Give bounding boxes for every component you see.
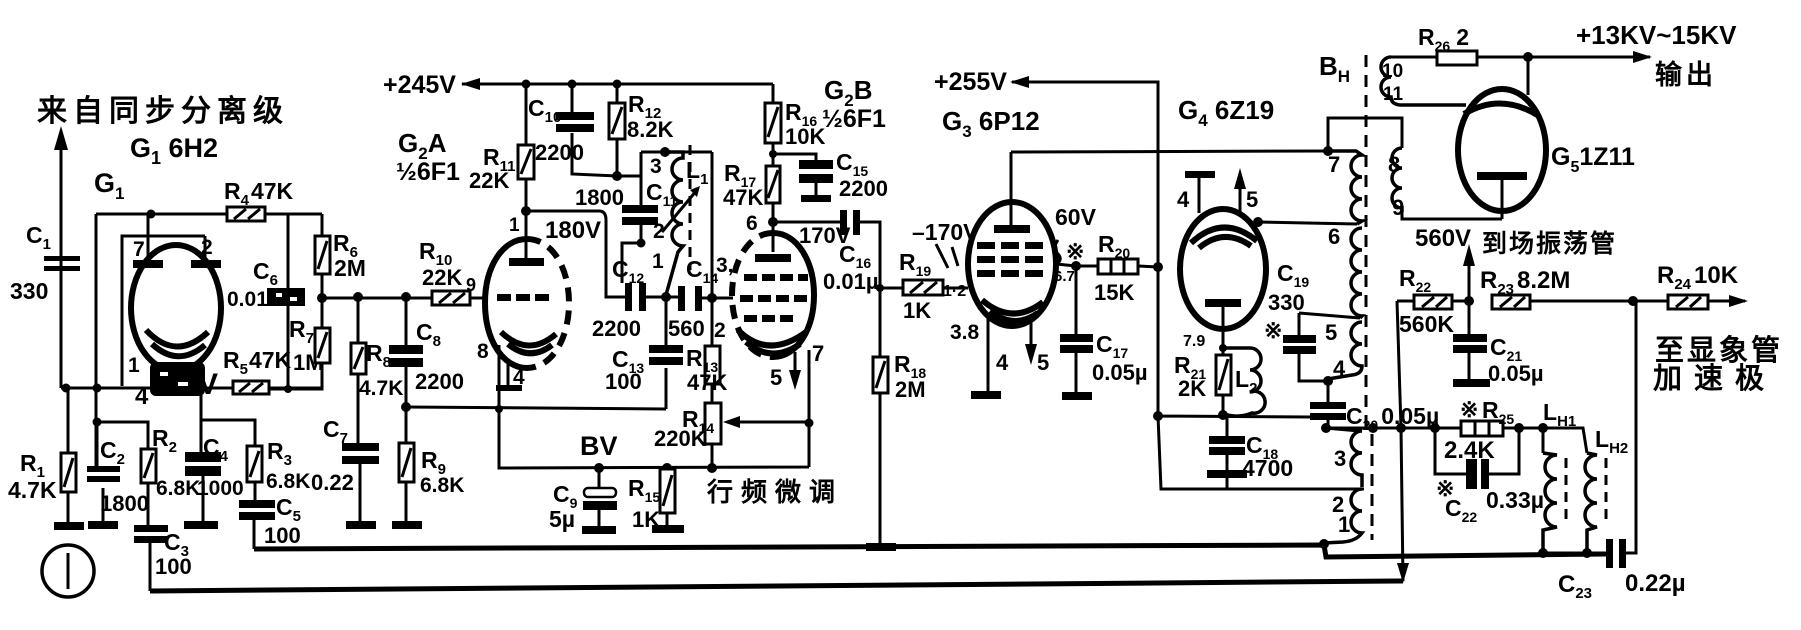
svg-text:2M: 2M <box>895 377 926 402</box>
svg-text:+255V: +255V <box>934 68 1007 96</box>
ground of C2 <box>88 521 118 529</box>
wire: +255V feed <box>1010 76 1158 267</box>
capacitor C7 0.22 <box>342 443 379 522</box>
svg-text:7: 7 <box>1328 152 1340 177</box>
tube G1 (6H2) <box>131 214 221 388</box>
svg-text:R238.2M: R238.2M <box>1480 267 1570 298</box>
svg-text:2K: 2K <box>1178 376 1206 401</box>
svg-text:1: 1 <box>1338 512 1350 537</box>
wire: BV rail <box>495 405 814 473</box>
resistor R1 4.7K <box>61 388 76 524</box>
cathode pin8 lead <box>498 345 501 409</box>
svg-text:4: 4 <box>1177 187 1190 212</box>
svg-text:180V: 180V <box>545 217 601 244</box>
resistor R19 1K <box>903 280 968 295</box>
flyback winding 6-5 <box>1351 228 1362 318</box>
capacitor C23 0.22u <box>1538 301 1636 568</box>
svg-text:0.22µ: 0.22µ <box>1625 570 1686 597</box>
grid dashes <box>497 294 511 301</box>
cathode arc <box>501 332 556 346</box>
tube G2B (half 6F1) <box>732 222 814 423</box>
svg-text:2200: 2200 <box>592 316 641 341</box>
capacitor C17 0.05u <box>1060 266 1093 400</box>
potentiometer R14 220K <box>705 403 809 468</box>
svg-text:4.7K: 4.7K <box>359 377 403 400</box>
flyback winding 3 <box>1328 428 1362 487</box>
anode bar <box>1205 299 1241 307</box>
svg-text:※: ※ <box>1460 397 1478 422</box>
resistor R20 15K <box>1098 259 1163 274</box>
capacitor C14 560 <box>678 286 733 311</box>
svg-text:9: 9 <box>1392 195 1404 220</box>
resistor R16 10K <box>765 84 781 166</box>
svg-text:10K: 10K <box>785 124 825 149</box>
resistor R23 8.2M <box>1492 295 1668 309</box>
wire: right side of feedback box <box>268 214 322 389</box>
grid rows <box>977 242 995 249</box>
svg-text:6: 6 <box>1328 224 1340 249</box>
node: sync input wire with arrow <box>54 126 68 388</box>
ground of C7 <box>346 521 376 529</box>
svg-text:3: 3 <box>650 155 662 178</box>
cathode pin4 lead <box>987 315 990 391</box>
capacitor C15 2200 <box>773 154 833 202</box>
flyback HV winding 8-9 <box>1328 118 1502 219</box>
capacitor C4 1000 <box>185 452 221 522</box>
pin 5 arrow up <box>1239 184 1242 213</box>
pin 4 top bar <box>1198 178 1201 213</box>
svg-text:560V: 560V <box>1415 225 1471 252</box>
svg-text:R2410K: R2410K <box>1657 262 1739 293</box>
svg-text:行频微调: 行频微调 <box>706 477 843 507</box>
tube G2A (half 6F1) <box>485 211 569 409</box>
svg-text:4: 4 <box>135 383 149 410</box>
cathode arc <box>738 330 806 346</box>
svg-text:0.22: 0.22 <box>311 470 354 495</box>
svg-text:560: 560 <box>668 316 705 341</box>
svg-text:100: 100 <box>155 554 192 579</box>
grid dashes row1 <box>744 274 757 281</box>
ground of R15 <box>652 525 684 533</box>
resistor R9 6.8K <box>399 407 414 522</box>
svg-text:5: 5 <box>1037 350 1049 375</box>
anode lead <box>772 222 775 252</box>
heater pin5 arrow <box>794 352 797 375</box>
ground of R1 <box>54 522 84 530</box>
resistor R24 10K <box>1668 295 1748 309</box>
ground of C4 <box>184 521 218 529</box>
svg-text:8.2K: 8.2K <box>627 117 674 142</box>
node: G2B anode pin 6 <box>768 217 778 227</box>
svg-text:输出: 输出 <box>1655 59 1717 90</box>
wire: G1 cathode bus y=388 <box>61 387 322 390</box>
svg-text:5µ: 5µ <box>549 506 575 532</box>
circled figure number 1 <box>42 545 94 597</box>
transformer core dashed <box>1366 55 1372 540</box>
svg-text:BV: BV <box>580 431 618 461</box>
capacitor C3 100 <box>134 525 168 591</box>
svg-text:1: 1 <box>509 215 520 236</box>
resistor R4 47K <box>227 207 265 221</box>
resistor R12 8.2K <box>609 84 625 176</box>
filament arc <box>1464 103 1539 116</box>
svg-text:6.7: 6.7 <box>1054 268 1075 285</box>
svg-text:220K: 220K <box>654 426 707 451</box>
flyback filament winding 10-11 <box>1381 57 1466 105</box>
capacitor C13 100 <box>649 297 683 409</box>
capacitor C12 2200 <box>625 283 678 311</box>
capacitor C21 0.05u <box>1453 301 1490 387</box>
capacitor C1 330 <box>44 256 80 271</box>
ground of G3 cathode <box>971 391 1001 399</box>
svg-text:G1 6H2: G1 6H2 <box>130 133 218 168</box>
wire: R22 branch from output line <box>1397 301 1414 581</box>
svg-text:+13KV~15KV: +13KV~15KV <box>1576 20 1737 50</box>
svg-text:½6F1: ½6F1 <box>396 158 460 186</box>
node: to vertical oscillator arrow <box>1463 244 1475 306</box>
svg-text:100: 100 <box>264 523 301 548</box>
wire: deflection feed line <box>1321 423 1461 433</box>
resistor R8 4.7K <box>351 297 366 443</box>
inductor LH2 <box>1543 428 1606 553</box>
resistor R7 1M <box>315 328 330 363</box>
wire: main signal line to G2A grid <box>322 297 486 300</box>
capacitor C20 0.05u <box>1310 381 1346 428</box>
svg-text:7: 7 <box>812 341 824 366</box>
svg-text:加速极: 加速极 <box>1653 362 1776 395</box>
svg-text:0.01µ: 0.01µ <box>823 269 879 294</box>
svg-text:2200: 2200 <box>415 369 464 394</box>
cathode arc <box>982 300 1043 314</box>
wire: G4 top to flyback tap 6 <box>1253 217 1357 227</box>
svg-text:7.9: 7.9 <box>1183 333 1205 350</box>
svg-text:330: 330 <box>10 278 48 304</box>
svg-text:2200: 2200 <box>535 140 584 165</box>
svg-text:8: 8 <box>477 340 489 363</box>
resistor R2 6.8K <box>141 449 156 526</box>
svg-text:5: 5 <box>1246 187 1258 212</box>
svg-text:※: ※ <box>1264 318 1282 343</box>
svg-text:1800: 1800 <box>100 491 149 516</box>
ground of C9 <box>582 526 616 534</box>
svg-text:22K: 22K <box>422 265 462 290</box>
capacitor C9 5u electrolytic <box>583 468 617 527</box>
screen node 60V <box>1055 240 1098 271</box>
filament arcs <box>1191 227 1257 243</box>
wire: upper return bus <box>254 539 1606 557</box>
svg-text:100: 100 <box>605 369 642 394</box>
svg-text:1·2: 1·2 <box>943 283 966 300</box>
wire: branch to C4/R3 <box>201 388 255 452</box>
inductor LH1 <box>1538 423 1566 553</box>
cathode arcs <box>146 330 208 347</box>
cathode pin7 lead <box>808 350 811 423</box>
capacitor C6 0.01 <box>267 214 305 389</box>
resistor R26 2 <box>1437 51 1652 65</box>
svg-text:1K: 1K <box>903 298 931 323</box>
anode pin1 <box>525 211 528 259</box>
svg-text:0.05µ: 0.05µ <box>1092 360 1148 385</box>
wire: G2A anode 180V node <box>526 211 625 297</box>
resistor R6 2M <box>315 214 330 298</box>
svg-text:9: 9 <box>466 275 476 295</box>
svg-text:7: 7 <box>133 238 145 261</box>
resistor R11 22K <box>518 84 534 211</box>
grid dashes row3 <box>744 315 757 322</box>
wire: branch to R2 <box>97 422 148 450</box>
tank node3 wire <box>641 151 712 154</box>
wire: +245V rail <box>461 78 773 90</box>
svg-text:11: 11 <box>1383 84 1404 105</box>
heater pin4 <box>507 362 510 387</box>
ground of R9 <box>392 521 422 529</box>
svg-text:5: 5 <box>770 365 782 390</box>
svg-text:4: 4 <box>996 350 1009 375</box>
plate pin2 <box>204 236 207 262</box>
svg-text:到场振荡管: 到场振荡管 <box>1482 229 1617 258</box>
resistor R22 560K <box>1414 295 1469 309</box>
capacitor C8 2200 <box>389 297 423 407</box>
svg-text:2M: 2M <box>334 255 366 281</box>
svg-text:6.8K: 6.8K <box>266 470 310 493</box>
capacitor C22 0.33u bypass <box>1435 428 1519 489</box>
plate pin7 <box>147 214 150 262</box>
svg-text:2200: 2200 <box>839 176 888 201</box>
heater pin5 arrow <box>1030 318 1033 345</box>
svg-text:4700: 4700 <box>1242 455 1293 481</box>
label: 40V smudge at G1 base <box>135 362 218 410</box>
svg-text:3: 3 <box>1334 446 1346 471</box>
svg-text:47K: 47K <box>723 185 763 210</box>
wire: boosted B+ node <box>1153 267 1364 489</box>
svg-text:1800: 1800 <box>575 185 624 210</box>
svg-text:60V: 60V <box>1055 204 1097 230</box>
svg-text:6.8K: 6.8K <box>420 474 464 497</box>
anode lead to top wire <box>1010 152 1013 226</box>
resistor R5 47K <box>233 381 269 394</box>
svg-text:0.05µ: 0.05µ <box>1488 361 1544 386</box>
capacitor C2 1800 <box>87 422 120 522</box>
svg-text:560K: 560K <box>1399 311 1454 337</box>
svg-text:15K: 15K <box>1094 280 1134 305</box>
tube G3 6P12 <box>968 152 1056 391</box>
wire: lower return bus <box>150 563 1409 591</box>
svg-text:330: 330 <box>1268 290 1305 315</box>
svg-text:2: 2 <box>714 319 726 342</box>
resistor R15 1K <box>660 469 675 526</box>
wire: G3 anode to flyback <box>1011 151 1328 152</box>
wire: node3 down to R13 <box>711 152 714 346</box>
capacitor C18 4700 <box>1207 415 1247 489</box>
svg-text:1: 1 <box>128 354 140 377</box>
resistor R25 2.4K <box>1461 421 1543 436</box>
capacitor C10 2200 <box>556 84 617 176</box>
svg-text:1: 1 <box>652 250 664 273</box>
svg-text:0.01: 0.01 <box>227 288 268 311</box>
svg-text:3,: 3, <box>716 254 734 277</box>
capacitor C11 1800 <box>622 152 658 283</box>
svg-text:22K: 22K <box>469 168 509 193</box>
svg-text:47K: 47K <box>687 370 727 395</box>
svg-text:6.8K: 6.8K <box>156 477 200 500</box>
inductor L1 adjustable <box>662 145 700 295</box>
wire: G2A cathode line <box>406 407 666 409</box>
tube G5 1Z11 HV rectifier <box>1458 57 1546 219</box>
svg-text:4.7K: 4.7K <box>8 477 57 503</box>
flyback primary winding 7-6 <box>1323 146 1362 224</box>
node: R12/C10 junction to tank <box>612 152 641 181</box>
resistor R17 47K <box>766 150 780 222</box>
svg-text:G3 6P12: G3 6P12 <box>942 106 1040 141</box>
capacitor C5 100 <box>239 500 275 549</box>
svg-text:10: 10 <box>1382 61 1403 82</box>
anode T <box>1477 172 1527 180</box>
resistor R18 2M <box>866 284 896 551</box>
svg-text:0.33µ: 0.33µ <box>1486 487 1544 513</box>
svg-text:至显象管: 至显象管 <box>1655 333 1783 367</box>
grid dashes row2 <box>740 295 753 302</box>
resistor R13 47K <box>705 346 720 403</box>
svg-text:3.8: 3.8 <box>950 321 980 344</box>
svg-text:G4 6Z19: G4 6Z19 <box>1178 95 1274 130</box>
flyback winding 5-4 <box>1323 322 1362 386</box>
svg-text:4: 4 <box>1333 356 1346 381</box>
svg-text:½6F1: ½6F1 <box>822 105 886 133</box>
wire: G1 outer feedback box <box>96 214 322 467</box>
svg-text:4: 4 <box>513 366 525 389</box>
wire: G1 plate pin2 inner loop <box>122 236 205 386</box>
svg-text:※: ※ <box>1066 239 1084 264</box>
inductor L2 <box>1223 348 1265 416</box>
svg-text:2: 2 <box>201 236 213 259</box>
resistor R10 22K <box>432 291 470 305</box>
svg-text:来自同步分离级: 来自同步分离级 <box>37 95 289 128</box>
svg-text:6: 6 <box>746 212 758 235</box>
svg-text:8: 8 <box>1388 152 1400 177</box>
tube G4 6Z19 damper <box>1180 168 1266 365</box>
flyback winding 2-1 <box>1324 489 1362 543</box>
svg-text:5: 5 <box>1325 320 1337 345</box>
resistor R21 2K <box>1216 344 1231 415</box>
resistor R3 6.8K <box>247 446 262 500</box>
capacitor C16 0.01u <box>773 210 903 288</box>
capacitor C19 330 <box>1283 313 1360 381</box>
svg-text:+245V: +245V <box>383 71 456 99</box>
